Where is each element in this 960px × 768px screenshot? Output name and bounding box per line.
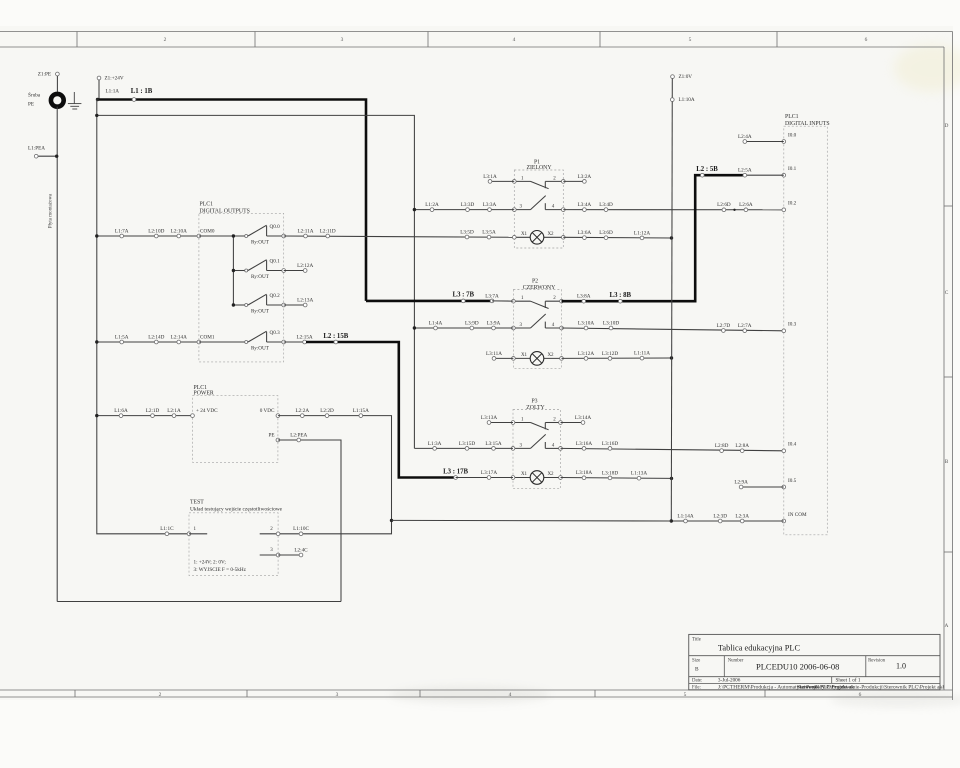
junction P3 lamp at 0V bus: [670, 477, 673, 480]
svg-text:1.0: 1.0: [896, 662, 906, 671]
svg-text:Tablica edukacyjna PLC: Tablica edukacyjna PLC: [718, 644, 801, 653]
wire Q0.0 output to P1 lamp row: [284, 236, 515, 237]
relay contact Q0.1: [245, 269, 248, 272]
svg-text:B: B: [695, 666, 699, 672]
svg-text:L1:4A: L1:4A: [429, 320, 443, 326]
svg-text:Z1:0V: Z1:0V: [679, 74, 693, 80]
wire P2 pin4 to input I0.3: [562, 328, 784, 331]
svg-text:Ry:OUT: Ry:OUT: [251, 308, 270, 314]
input pin I0.3: [782, 329, 786, 333]
svg-text:4: 4: [513, 37, 516, 43]
wire 0VDC output: [278, 416, 392, 521]
lamp wires and bulb: [513, 357, 530, 359]
svg-text:3: 3: [341, 37, 344, 43]
svg-text:DIGITAL OUTPUTS: DIGITAL OUTPUTS: [200, 208, 250, 214]
svg-text:L2:14D: L2:14D: [148, 334, 164, 340]
svg-text:L3:4A: L3:4A: [578, 202, 592, 208]
wire Z1:+24V down: [98, 80, 100, 100]
svg-text:L3:12A: L3:12A: [578, 351, 594, 357]
wire P3 pin4 to input I0.4: [561, 448, 784, 450]
svg-text:L2:2A: L2:2A: [296, 408, 310, 414]
svg-text:+ 24 VDC: + 24 VDC: [196, 408, 218, 414]
ground symbol: [73, 92, 75, 103]
junction P1 lamp at 0V bus: [670, 236, 673, 239]
svg-text:COM0: COM0: [200, 228, 215, 234]
svg-text:L3:16D: L3:16D: [602, 441, 618, 447]
wire P2 lamp to 0V bus: [562, 357, 672, 359]
wire P1 lamp to 0V bus: [563, 236, 671, 239]
svg-text:L3:6D: L3:6D: [599, 230, 613, 236]
scan smudge top right tint: [894, 44, 960, 92]
wire IN COM row: [671, 520, 784, 522]
wire Z1:PE to screw: [56, 76, 58, 92]
svg-text:L2:5A: L2:5A: [738, 168, 752, 174]
svg-text:Z1:PE: Z1:PE: [38, 72, 51, 78]
input pin I0.1: [782, 173, 786, 177]
svg-text:L3:15A: L3:15A: [485, 441, 501, 447]
svg-text:L3:13A: L3:13A: [481, 415, 497, 421]
wire I0.0 lead: [745, 141, 784, 143]
svg-text:L3:15D: L3:15D: [459, 441, 475, 447]
svg-text:L2:8A: L2:8A: [735, 443, 749, 449]
svg-text:TEST: TEST: [190, 500, 204, 506]
svg-text:L3:11A: L3:11A: [486, 351, 502, 357]
svg-text:3-Jul-2006: 3-Jul-2006: [718, 678, 741, 684]
wire L1 bus vertical: [97, 100, 189, 534]
svg-text:L2 : 15B: L2 : 15B: [323, 333, 348, 340]
svg-text:X2: X2: [547, 472, 554, 477]
svg-text:C: C: [945, 290, 949, 296]
svg-text:L1:2A: L1:2A: [425, 202, 439, 208]
svg-text:Q0.0: Q0.0: [270, 224, 281, 230]
svg-text:Q0.3: Q0.3: [270, 330, 281, 336]
terminal Z1:+24V: [97, 76, 101, 80]
svg-text:L1:15A: L1:15A: [353, 408, 369, 414]
wire P2 pin2 thick output L3:8B: [562, 175, 745, 301]
svg-text:X1: X1: [521, 353, 528, 358]
svg-text:PLC1: PLC1: [785, 114, 799, 120]
wire P3 pin2 lead: [561, 422, 584, 424]
wire P1 pin1 lead: [490, 180, 514, 182]
svg-text:L2:8D: L2:8D: [715, 443, 729, 449]
svg-text:L3 : 17B: L3 : 17B: [443, 468, 468, 475]
svg-text:0 VDC: 0 VDC: [260, 408, 275, 414]
svg-text:L2:7D: L2:7D: [717, 323, 731, 329]
svg-text:Date:: Date:: [692, 679, 702, 684]
svg-text:L3 : 8B: L3 : 8B: [610, 292, 632, 299]
wire COM1 internal: [199, 341, 246, 343]
wire +24VDC feed from L1 bus: [97, 415, 193, 417]
border frame right lines: [943, 47, 945, 690]
svg-text:ZIELONY: ZIELONY: [526, 165, 552, 171]
svg-text:L2:3D: L2:3D: [713, 513, 727, 519]
svg-text:D: D: [945, 123, 949, 129]
svg-text:4: 4: [509, 692, 512, 698]
wire L3:7B thick feed into P2 pin1: [366, 300, 492, 303]
TEST block box: [189, 513, 278, 576]
wire Q0.1 output: [284, 270, 306, 272]
svg-text:L2 : 5B: L2 : 5B: [696, 166, 718, 173]
svg-text:I0.4: I0.4: [788, 442, 797, 448]
terminal +24VDC box edge: [191, 414, 195, 418]
title block outline: [689, 634, 940, 689]
junction L1 bus top: [96, 98, 99, 101]
svg-text:L3:10A: L3:10A: [578, 320, 594, 326]
svg-text:PE: PE: [28, 102, 34, 108]
terminal Z1:PE: [56, 72, 60, 76]
svg-text:L3:9D: L3:9D: [465, 320, 479, 326]
svg-text:L3:17A: L3:17A: [481, 470, 497, 476]
svg-text:File:: File:: [692, 685, 701, 690]
wire COM1 row: [97, 341, 199, 343]
svg-text:P3: P3: [531, 399, 537, 405]
wire P1 pin3 feed from L1 bus: [414, 209, 514, 211]
wire thin +24V distribution to lamps feed: [97, 115, 415, 448]
svg-text:L3:14A: L3:14A: [575, 415, 591, 421]
screw symbol Sruba PE: [51, 94, 64, 107]
terminal TEST pin1: [187, 532, 191, 536]
svg-text:L1:11A: L1:11A: [634, 351, 650, 357]
svg-text:L3:5D: L3:5D: [460, 229, 474, 235]
svg-text:Płyta montażowa: Płyta montażowa: [49, 193, 54, 228]
junction COM1 at bus: [95, 340, 98, 343]
contact fixed side pins 1-2: [513, 300, 530, 302]
svg-text:L2:6D: L2:6D: [717, 202, 731, 208]
svg-text:L2:2D: L2:2D: [320, 408, 334, 414]
svg-text:L2:13A: L2:13A: [297, 297, 313, 303]
input pin I0.5: [782, 485, 786, 489]
svg-text:Z1:+24V: Z1:+24V: [105, 76, 124, 82]
border frame column ticks bottom: [74, 690, 76, 697]
junction IN COM at 0V bus: [670, 519, 673, 522]
svg-text:L3:5A: L3:5A: [482, 230, 496, 236]
wire TEST pin2 to 0V net: [280, 520, 392, 533]
PLC1 DIGITAL INPUTS block box: [784, 126, 828, 535]
junction COM0 at bus: [95, 234, 98, 237]
svg-text:I0.3: I0.3: [788, 322, 797, 328]
svg-text:I0.1: I0.1: [788, 166, 797, 172]
svg-text:POWER: POWER: [194, 391, 214, 397]
relay contact Q0.2: [245, 304, 248, 307]
svg-text:Śruba: Śruba: [28, 91, 41, 99]
svg-text:L2:3A: L2:3A: [735, 513, 749, 519]
svg-text:Q0.2: Q0.2: [270, 293, 281, 299]
scan smudge bottom middle: [390, 686, 550, 704]
svg-text:L2:10D: L2:10D: [148, 228, 164, 234]
wire PE bottom run: [57, 601, 341, 603]
junction internal COM0 bus: [232, 234, 235, 237]
wire P3 lamp to 0V bus: [561, 477, 672, 480]
svg-text:L3:2A: L3:2A: [578, 174, 592, 180]
junction P2 lamp at 0V bus: [670, 356, 673, 359]
svg-text:L2:1A: L2:1A: [167, 408, 181, 414]
svg-text:L1:3A: L1:3A: [428, 441, 442, 447]
svg-text:1: +24V; 2: 0V;: 1: +24V; 2: 0V;: [194, 560, 227, 566]
svg-text:IN COM: IN COM: [788, 512, 807, 518]
svg-text:Revision: Revision: [868, 659, 886, 664]
wire P3 lamp left lead thin: [456, 477, 513, 479]
svg-text:L3:3A: L3:3A: [483, 202, 497, 208]
border frame column ticks top: [76, 32, 78, 48]
svg-text:X2: X2: [547, 353, 554, 358]
svg-text:L3:9A: L3:9A: [487, 320, 501, 326]
svg-text:Number: Number: [728, 659, 744, 664]
svg-text:3: WYJSCIE F = 0-5kHz: 3: WYJSCIE F = 0-5kHz: [194, 567, 247, 573]
svg-text:L2:9A: L2:9A: [734, 479, 748, 485]
svg-text:I0.5: I0.5: [788, 478, 797, 484]
junction P1 feed: [413, 208, 416, 211]
wire COM0 internal to contacts: [199, 235, 246, 237]
wire 0V net to IN COM: [392, 519, 672, 522]
junction thin feed: [95, 114, 98, 117]
svg-text:X1: X1: [521, 472, 528, 477]
terminal TEST pin3: [260, 554, 278, 556]
wire screw to ground symbol: [64, 99, 75, 101]
svg-text:L1:10C: L1:10C: [293, 526, 309, 532]
svg-text:L3:7A: L3:7A: [485, 293, 499, 299]
wire P1 pin4 to input I0.2: [563, 209, 784, 211]
svg-text:Size: Size: [692, 659, 700, 664]
svg-text:L1:13A: L1:13A: [631, 471, 647, 477]
wire P2 lamp left open lead: [494, 357, 513, 359]
svg-text:Ry:OUT: Ry:OUT: [251, 239, 270, 245]
wire P1 pin2 lead: [563, 180, 584, 182]
svg-text:L1:7A: L1:7A: [115, 228, 129, 234]
border frame top lines: [0, 31, 953, 33]
svg-text:L2:15A: L2:15A: [297, 334, 313, 340]
svg-text:L3:8A: L3:8A: [577, 294, 591, 300]
svg-text:P2: P2: [532, 279, 538, 285]
svg-text:B: B: [945, 459, 949, 465]
wire 0V bus vertical: [671, 79, 672, 521]
input pin IN COM: [782, 519, 786, 523]
svg-text:L3:12D: L3:12D: [602, 351, 618, 357]
terminal on L1:1B: [132, 98, 136, 102]
wire I0.5 lead: [741, 486, 784, 488]
terminal COM1 box edge: [197, 340, 201, 344]
svg-text:3: 3: [336, 692, 339, 698]
svg-text:L2:4A: L2:4A: [738, 134, 752, 140]
svg-text:PE: PE: [268, 432, 274, 438]
svg-text:Ry:OUT: Ry:OUT: [251, 345, 270, 351]
svg-text:Ry:OUT: Ry:OUT: [251, 274, 270, 280]
svg-text:L2:7A: L2:7A: [738, 323, 752, 329]
svg-text:A: A: [945, 623, 949, 629]
junction +24VDC at bus: [95, 414, 98, 417]
svg-text:Sheet 1 of 1: Sheet 1 of 1: [836, 677, 861, 684]
svg-text:PLCEDU10 2006-06-08: PLCEDU10 2006-06-08: [756, 662, 839, 672]
contact fixed side pins 1-2: [513, 422, 531, 424]
input pin I0.2: [782, 208, 786, 212]
svg-text:X1: X1: [521, 232, 528, 237]
svg-text:L2:11D: L2:11D: [320, 228, 336, 234]
junction L1:PEA: [55, 155, 58, 158]
terminal L1:PEA: [34, 154, 38, 158]
P3 ZOLTY block box: [513, 410, 561, 489]
svg-text:CZERWONY: CZERWONY: [523, 285, 556, 291]
svg-text:L3:1A: L3:1A: [483, 174, 497, 180]
contact fixed side pins 1-2: [514, 180, 530, 182]
border frame bottom lines: [0, 689, 953, 691]
wire Q0.2 output: [284, 304, 306, 306]
svg-text:I0.2: I0.2: [788, 201, 797, 207]
PLC1 POWER block box: [193, 396, 278, 463]
svg-text:I0.0: I0.0: [788, 132, 797, 138]
relay contact Q0.0: [245, 235, 248, 238]
lamp wires and bulb: [514, 236, 530, 238]
svg-text:2: 2: [159, 692, 162, 698]
wire TEST pin3 lead: [278, 554, 301, 556]
svg-text:L3:18D: L3:18D: [602, 470, 618, 476]
input pin I0.4: [782, 449, 786, 453]
wire I0.1 lead thin: [745, 174, 784, 176]
svg-text:Title: Title: [692, 637, 701, 642]
relay contact Q0.3: [245, 341, 248, 344]
wire P3 pin3 feed from L1 bus: [414, 447, 513, 449]
wire P3 pin1 lead: [489, 422, 513, 424]
svg-text:L3:18A: L3:18A: [576, 470, 592, 476]
svg-text:L1:1C: L1:1C: [160, 526, 174, 532]
wire COM0 row: [97, 235, 199, 237]
svg-text:L3 : 7B: L3 : 7B: [453, 292, 475, 299]
terminal PE box edge: [276, 438, 280, 442]
svg-text:5: 5: [689, 37, 692, 43]
svg-text:L3:3D: L3:3D: [461, 202, 475, 208]
P1 ZIELONY block box: [514, 170, 563, 248]
svg-text:L1:1A: L1:1A: [106, 89, 120, 95]
svg-text:L2:14A: L2:14A: [171, 334, 187, 340]
contact moving side pins 3-4: [513, 327, 530, 329]
contact moving side pins 3-4: [513, 447, 531, 449]
terminal L1:10A: [670, 98, 674, 102]
input pin I0.0: [782, 140, 786, 144]
svg-text:6: 6: [859, 692, 862, 698]
svg-text:L1:PEA: L1:PEA: [28, 146, 45, 152]
svg-text:Układ testujący wejście często: Układ testujący wejście częstotliwościow…: [190, 506, 283, 512]
svg-text:ZOLTY: ZOLTY: [526, 405, 545, 411]
wire Q0.3 output thin part: [284, 341, 308, 343]
wire PE vertical (mounting plate): [56, 107, 58, 602]
contact moving side pins 3-4: [514, 209, 530, 211]
svg-text:L2:12A: L2:12A: [297, 263, 313, 269]
wire P2 pin3 feed from L1 bus: [414, 327, 513, 329]
svg-text:L3:6A: L3:6A: [578, 230, 592, 236]
terminal COM0 box edge: [197, 234, 201, 238]
svg-text:X2: X2: [547, 232, 554, 237]
P2 CZERWONY block box: [513, 290, 561, 369]
svg-text:Sterownik PLC\Projekt ak: Sterownik PLC\Projekt ak: [797, 685, 854, 690]
svg-text:L2:11A: L2:11A: [298, 228, 314, 234]
junction small I0.2 wire: [733, 209, 735, 211]
svg-text:L3:4D: L3:4D: [599, 202, 613, 208]
svg-text:PLC1: PLC1: [200, 202, 214, 208]
svg-text:L1:10A: L1:10A: [679, 97, 695, 103]
title block dividers: [689, 655, 940, 657]
svg-text:6: 6: [865, 37, 868, 43]
svg-text:2: 2: [164, 37, 167, 43]
svg-text:L2:10A: L2:10A: [171, 228, 187, 234]
junction P2 feed: [413, 326, 416, 329]
svg-text:L1:12A: L1:12A: [634, 230, 650, 236]
wire PE output loop: [278, 440, 341, 602]
svg-text:L2:1D: L2:1D: [146, 408, 160, 414]
terminal 0VDC box edge: [276, 414, 280, 418]
svg-text:L3:10D: L3:10D: [603, 320, 619, 326]
svg-text:L1 : 1B: L1 : 1B: [131, 88, 153, 95]
svg-text:Q0.1: Q0.1: [270, 259, 281, 265]
lamp wires and bulb: [513, 477, 530, 479]
terminal Z1:0V: [671, 75, 675, 79]
svg-text:L1:5A: L1:5A: [115, 334, 129, 340]
scan smudge bottom right: [830, 692, 960, 708]
border frame row ticks right: [944, 205, 953, 207]
svg-text:DIGITAL INPUTS: DIGITAL INPUTS: [785, 121, 830, 127]
wire L1:PEA to PE vertical: [38, 155, 57, 157]
svg-text:L2:4C: L2:4C: [294, 547, 308, 553]
wire pin1 lead thin: [492, 300, 513, 302]
svg-text:L1:14A: L1:14A: [677, 513, 693, 519]
PLC1 DIGITAL OUTPUTS block box: [199, 213, 284, 362]
svg-text:L3:16A: L3:16A: [576, 441, 592, 447]
wire L2:15B thick to P3 lamp: [306, 342, 456, 478]
svg-text:L1:6A: L1:6A: [114, 408, 128, 414]
svg-text:COM1: COM1: [200, 334, 215, 340]
svg-text:L2:PEA: L2:PEA: [290, 432, 307, 438]
wire TEST pin1 stub: [189, 533, 207, 535]
wire L1:1B thick +24V feed: [98, 100, 367, 301]
terminal TEST pin2: [260, 533, 278, 535]
svg-text:5: 5: [684, 692, 687, 698]
junction test/0V net: [390, 519, 393, 522]
svg-text:L2:6A: L2:6A: [739, 202, 753, 208]
